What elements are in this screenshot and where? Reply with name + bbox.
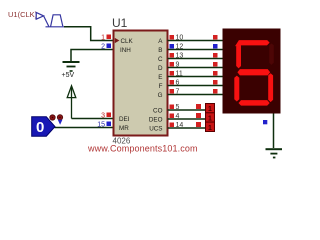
wire UCS	[168, 127, 206, 129]
svg-text:MR: MR	[119, 125, 129, 132]
logic state tag 0	[32, 117, 55, 137]
CLK clock-input arrowhead	[115, 38, 120, 43]
wire C	[168, 58, 223, 60]
svg-text:6: 6	[176, 80, 180, 87]
svg-text:11: 11	[176, 71, 183, 78]
wire logic tag to MR	[55, 127, 114, 129]
pin 7 marker (G)	[170, 89, 180, 96]
svg-text:2: 2	[101, 43, 105, 50]
junction circle 2	[57, 115, 62, 120]
svg-text:1: 1	[208, 125, 212, 132]
svg-text:D: D	[158, 65, 163, 72]
7-segment display body	[223, 29, 281, 114]
svg-text:4: 4	[176, 113, 180, 120]
svg-text:13: 13	[176, 53, 184, 60]
segment f (lit)	[236, 43, 241, 68]
segment g (lit)	[237, 69, 270, 75]
IC U1 body (4026)	[114, 31, 168, 136]
wire F	[168, 85, 223, 87]
svg-text:1: 1	[101, 34, 105, 41]
pin 5 marker (CO)	[170, 104, 180, 111]
pin 9 marker (D)	[170, 62, 180, 69]
svg-text:+5V: +5V	[62, 72, 75, 79]
logic probe box (DEO)	[206, 113, 215, 123]
segment b (off)	[269, 43, 274, 65]
svg-text:U1(CLK): U1(CLK)	[8, 10, 38, 19]
svg-text:0: 0	[36, 119, 44, 136]
pin 14 marker (UCS)	[170, 122, 184, 129]
svg-text:14: 14	[176, 122, 184, 129]
pin 11 marker (E)	[170, 71, 183, 78]
svg-text:9: 9	[176, 62, 180, 69]
segment d (lit)	[239, 100, 270, 106]
svg-text:5: 5	[176, 104, 180, 111]
junction circle 1	[50, 115, 55, 120]
svg-text:10: 10	[176, 35, 184, 42]
wire DEO	[168, 118, 206, 120]
wire E	[168, 76, 223, 78]
pin 13 marker (C)	[170, 53, 184, 60]
segment c (lit)	[268, 73, 273, 102]
svg-text:G: G	[158, 92, 163, 99]
svg-text:DEO: DEO	[149, 116, 163, 123]
logic probe box (CO)	[206, 104, 215, 114]
wire D	[168, 67, 223, 69]
pin 6 marker (F)	[170, 80, 180, 87]
segment a (lit)	[235, 40, 270, 46]
svg-text:INH: INH	[120, 47, 131, 54]
pin 10 marker (A)	[170, 35, 184, 42]
pin 3 marker	[101, 112, 111, 119]
power terminal +5V arrow	[67, 86, 76, 119]
pin 2 marker	[101, 43, 111, 50]
IC pin name labels	[119, 38, 163, 132]
probe input markers	[196, 104, 201, 109]
clock generator symbol	[36, 12, 64, 26]
svg-text:U1: U1	[112, 16, 128, 30]
pin 12 marker (B)	[170, 44, 184, 51]
wire G	[168, 94, 223, 96]
logic probe box (UCS)	[206, 122, 215, 132]
svg-text:12: 12	[176, 44, 184, 51]
pin 15 marker	[97, 121, 111, 128]
ground (INH)	[63, 61, 80, 72]
wire clock to CLK pin	[64, 27, 114, 41]
wire B	[168, 49, 223, 51]
svg-text:C: C	[158, 56, 163, 63]
svg-text:CLK: CLK	[121, 38, 134, 45]
svg-text:www.Components101.com: www.Components101.com	[87, 144, 198, 154]
wire INH to ground	[71, 50, 114, 62]
svg-text:1: 1	[208, 116, 212, 123]
pin 4 marker (DEO)	[170, 113, 180, 120]
wire display to ground	[273, 114, 275, 149]
svg-text:F: F	[159, 83, 163, 90]
svg-text:15: 15	[97, 121, 105, 128]
wire A	[168, 40, 223, 42]
svg-text:E: E	[158, 74, 162, 81]
svg-text:CO: CO	[153, 107, 163, 114]
display-side segment pin markers	[213, 35, 218, 40]
svg-text:7: 7	[176, 89, 180, 96]
segment e (lit)	[234, 76, 239, 102]
wire +5V to DEI	[72, 118, 114, 120]
svg-text:1: 1	[208, 106, 212, 113]
pin 1 marker	[101, 34, 111, 41]
wire CO	[168, 109, 206, 111]
blue probe marker	[58, 120, 63, 125]
svg-text:DEI: DEI	[119, 116, 130, 123]
ground (display)	[266, 148, 283, 158]
svg-text:B: B	[158, 47, 162, 54]
svg-text:3: 3	[101, 112, 105, 119]
display cathode pin marker	[263, 120, 267, 124]
svg-text:UCS: UCS	[149, 125, 162, 132]
